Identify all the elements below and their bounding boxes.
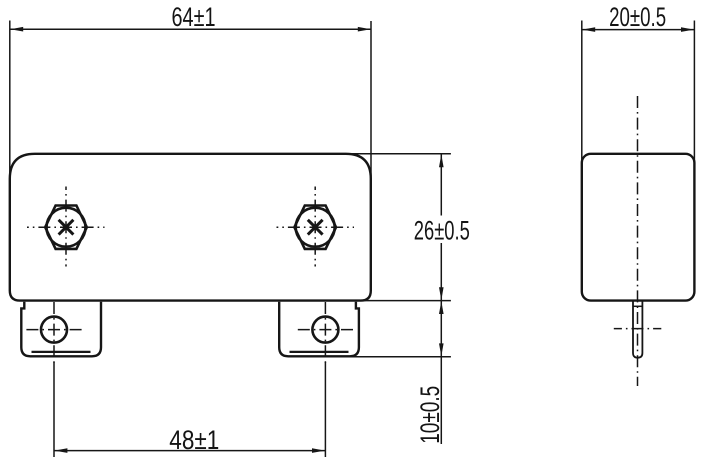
- tab hole centerline horizontal (left): [23, 329, 86, 331]
- screw centerline horizontal (right): [277, 226, 355, 228]
- dim 20 arrow left: [582, 27, 595, 32]
- dim 26 arrow down: [439, 287, 444, 300]
- terminal pin centerline horizontal: [614, 328, 662, 330]
- dim 26 arrow up: [439, 154, 444, 167]
- dim 10 dimension line: [440, 301, 442, 444]
- dim 10 extension line bottom: [350, 356, 451, 358]
- dim 48 arrow left: [54, 448, 67, 453]
- dim 20 extension line right: [693, 21, 695, 166]
- screw head circle (right): [296, 208, 335, 247]
- dim 10 arrow up: [439, 301, 444, 314]
- screw centerline vertical (left): [65, 187, 67, 267]
- screw cross recess (right): [308, 220, 323, 235]
- screw cross recess (left): [59, 220, 74, 235]
- svg-text:64±1: 64±1: [172, 2, 216, 32]
- screw head circle (left): [47, 208, 86, 247]
- screw nut hexagon (left): [45, 206, 87, 249]
- dim 20 arrow right: [681, 27, 694, 32]
- dim 64 dimension line: [10, 28, 371, 30]
- tab hole (right): [312, 317, 338, 343]
- body outline (front view): [10, 154, 371, 301]
- mounting tab outline (left): [21, 302, 101, 357]
- tab slot line (left): [32, 351, 91, 353]
- dim 26 dimension line lower segment: [440, 243, 442, 300]
- terminal pin outline: [633, 301, 642, 358]
- dim 64 arrow right: [358, 27, 371, 32]
- tab hole centerline horizontal (right): [296, 329, 356, 331]
- dim 48 extension line right: [324, 362, 326, 457]
- dim 10 arrow down: [439, 343, 444, 356]
- dim 20 extension line left: [581, 21, 583, 166]
- body outline (side view): [582, 154, 695, 301]
- dim 26/10 extension line middle: [355, 300, 451, 302]
- side view centerline vertical: [637, 96, 639, 386]
- tab hole centerline vertical (right): [324, 299, 326, 363]
- screw nut hexagon (right): [294, 206, 336, 249]
- dim 64 extension line right: [370, 21, 372, 180]
- svg-text:26±0.5: 26±0.5: [414, 216, 470, 246]
- screw centerline horizontal (left): [27, 226, 105, 228]
- dim 48 dimension line: [54, 450, 325, 452]
- svg-text:48±1: 48±1: [169, 425, 219, 455]
- dim 26 dimension line upper segment: [440, 154, 442, 215]
- dim 20 dimension line: [582, 29, 694, 31]
- dim 26 extension line top: [340, 153, 451, 155]
- dim 48 arrow right: [312, 448, 325, 453]
- tab slot line (right): [290, 351, 349, 353]
- tab hole (left): [41, 317, 67, 343]
- dim 64 extension line left: [9, 21, 11, 181]
- terminal pin collar line: [633, 305, 642, 307]
- mounting tab outline (right): [279, 302, 359, 357]
- tab hole centerline vertical (left): [53, 299, 55, 363]
- svg-text:10±0.5: 10±0.5: [415, 386, 445, 444]
- screw centerline vertical (right): [314, 187, 316, 267]
- dim 48 extension line left: [53, 362, 55, 457]
- dim 64 arrow left: [10, 27, 23, 32]
- svg-text:20±0.5: 20±0.5: [609, 2, 666, 32]
